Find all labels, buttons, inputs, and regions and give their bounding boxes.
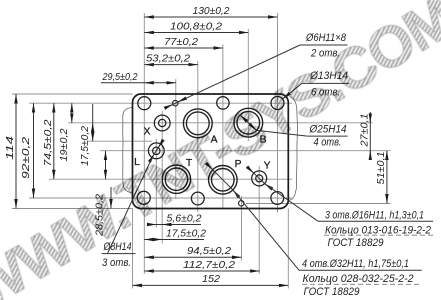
port A: [183, 109, 212, 138]
edge extension col left: [132, 209, 134, 289]
svg-text:ГОСТ 18829: ГОСТ 18829: [304, 286, 360, 298]
plate outline: [133, 94, 289, 209]
svg-text:77±0,2: 77±0,2: [164, 36, 198, 48]
leader Ø25 port B: [240, 115, 348, 136]
leader Ø6 holes: [165, 45, 348, 108]
svg-text:Ø25H14: Ø25H14: [309, 124, 347, 136]
svg-text:51±0,1: 51±0,1: [375, 152, 387, 185]
svg-text:Y: Y: [264, 161, 271, 172]
svg-text:17,5±0,2: 17,5±0,2: [79, 126, 91, 166]
centerline col right corner holes: [277, 13, 279, 213]
dimension 19: [71, 103, 73, 123]
dimension 152: [133, 284, 289, 286]
svg-text:94,5±0,2: 94,5±0,2: [187, 245, 231, 257]
svg-text:6 отв.: 6 отв.: [311, 87, 340, 99]
svg-text:Кольцо 013-016-19-2-2: Кольцо 013-016-19-2-2: [325, 224, 431, 236]
dimension 5.6: [147, 224, 201, 226]
centerline col A / bottom-middle hole: [197, 61, 199, 212]
leader Ø13 holes: [282, 83, 349, 99]
centerline col X: [161, 111, 163, 244]
centerline col small hole bottom: [241, 196, 243, 261]
svg-text:100,8±0,2: 100,8±0,2: [170, 21, 222, 33]
hole Ø6 top: [173, 100, 179, 106]
dimension 27: [369, 112, 371, 158]
svg-text:A: A: [211, 135, 218, 146]
centerline row T P Y: [49, 178, 292, 180]
svg-text:3 отв.Ø16H11, h1,3±0,1: 3 отв.Ø16H11, h1,3±0,1: [325, 210, 424, 222]
centerline row X A B: [68, 122, 373, 124]
port B: [234, 108, 263, 137]
leader Ø32 port P: [206, 163, 421, 270]
hole Ø13 top-middle: [217, 97, 229, 109]
extension and centre lines: [12, 13, 391, 289]
svg-text:92±0,2: 92±0,2: [20, 137, 32, 179]
svg-text:P: P: [235, 159, 242, 170]
svg-text:114: 114: [4, 136, 16, 160]
dimension 51: [386, 151, 388, 204]
dimension 28.5: [106, 151, 112, 209]
svg-text:152: 152: [202, 273, 220, 285]
dimension 29.5: [101, 82, 176, 84]
svg-text:Кольцо 028-032-25-2-2: Кольцо 028-032-25-2-2: [303, 273, 414, 285]
port X: [154, 115, 170, 131]
port L: [148, 143, 164, 159]
svg-text:X: X: [144, 127, 151, 138]
centerline col P / top-middle hole: [222, 45, 224, 210]
hole Ø13 top-right corner: [271, 97, 284, 110]
dimension 77: [144, 47, 223, 49]
svg-text:19±0,2: 19±0,2: [58, 128, 70, 161]
dimension 114: [15, 94, 17, 209]
svg-text:L: L: [134, 157, 140, 168]
dimension 94.5: [144, 256, 241, 258]
bottom edge extension row: [12, 208, 133, 210]
centerline row top holes: [29, 102, 292, 104]
svg-text:3 отв.: 3 отв.: [102, 257, 131, 269]
svg-text:T: T: [186, 158, 193, 169]
centerline col L: [155, 139, 157, 228]
dimension 100.8: [144, 32, 248, 34]
centerline col datum (corner holes left): [143, 13, 145, 274]
svg-text:Ø6H11×8: Ø6H11×8: [305, 32, 347, 44]
svg-text:17,5±0,2: 17,5±0,2: [166, 227, 206, 239]
edge extension col right: [287, 209, 289, 289]
note texts: [102, 32, 431, 298]
dashed underline ring note 1: [324, 234, 433, 236]
port T: [162, 165, 190, 193]
leader Ø8 port L: [102, 141, 163, 254]
dimension 112.7: [144, 270, 259, 272]
svg-text:4 отв.: 4 отв.: [314, 137, 342, 149]
port P: [209, 166, 238, 195]
casting contour left: [123, 108, 132, 193]
centerline row L: [100, 150, 391, 152]
leader Ø16 port Y: [248, 168, 433, 222]
svg-text:130±0,2: 130±0,2: [193, 5, 230, 17]
svg-text:B: B: [260, 135, 267, 146]
hole Ø13 bottom-middle: [191, 192, 204, 205]
casting contour right: [289, 97, 297, 201]
svg-text:ГОСТ 18829: ГОСТ 18829: [328, 237, 384, 249]
svg-text:4 отв.Ø32H11, h1,75±0,1: 4 отв.Ø32H11, h1,75±0,1: [302, 258, 409, 270]
dashed underline ring note 2: [302, 283, 420, 285]
dimension 53.2: [144, 64, 198, 66]
svg-text:53,2±0,2: 53,2±0,2: [146, 53, 190, 65]
svg-text:74,5±0,2: 74,5±0,2: [42, 119, 54, 166]
svg-text:Ø13H14: Ø13H14: [309, 70, 348, 82]
svg-text:28,5±0,2: 28,5±0,2: [94, 194, 106, 237]
centerline col Y: [258, 166, 260, 274]
extension row 17.5 lower: [88, 140, 152, 142]
svg-text:Ø8H14: Ø8H14: [103, 241, 132, 253]
centerline col B: [247, 29, 249, 141]
svg-text:27±0,1: 27±0,1: [358, 114, 370, 148]
extension row small bottom hole: [246, 203, 391, 205]
hole Ø13 top-left corner: [138, 97, 151, 110]
dimension 130: [144, 16, 277, 18]
svg-text:112,7±0,2: 112,7±0,2: [183, 259, 235, 271]
dimension 74.5: [53, 103, 55, 179]
hole Ø13 bottom-right corner: [271, 192, 284, 205]
hole Ø13 bottom-left corner: [137, 191, 150, 204]
hole Ø6 bottom: [239, 201, 245, 207]
dimension 17.5 left: [92, 104, 94, 141]
port labels: [134, 127, 270, 172]
centerline row bottom holes: [29, 197, 292, 199]
svg-text:29,5±0,2: 29,5±0,2: [102, 71, 138, 83]
dimension 17.5 bottom: [144, 239, 204, 241]
svg-text:5,6±0,2: 5,6±0,2: [167, 212, 202, 224]
dimension 92: [33, 103, 35, 198]
top edge extension row: [12, 93, 133, 95]
centerline col T / small hole top: [175, 79, 177, 199]
svg-text:2 отв.: 2 отв.: [310, 48, 340, 60]
port Y: [252, 171, 267, 186]
